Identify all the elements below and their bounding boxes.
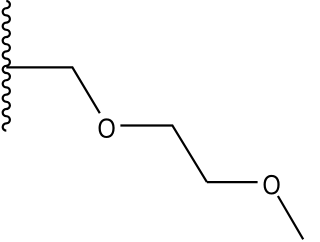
node O1 (ether oxygen) [99,118,115,138]
wire: horizontal bond O1 to CH2 vertex, then diagonal down to CH2 [120,126,206,183]
wavy bond (polymer attachment squiggle) [3,1,10,131]
wire: diagonal bond O2 to terminal CH3 [278,196,303,239]
wire: horizontal bond CH2 to O2 [207,181,258,183]
wire: horizontal bond from squiggle to CH2 vertex, then diagonal to O1 [6,67,100,113]
node O2 (ether oxygen) [264,175,280,195]
